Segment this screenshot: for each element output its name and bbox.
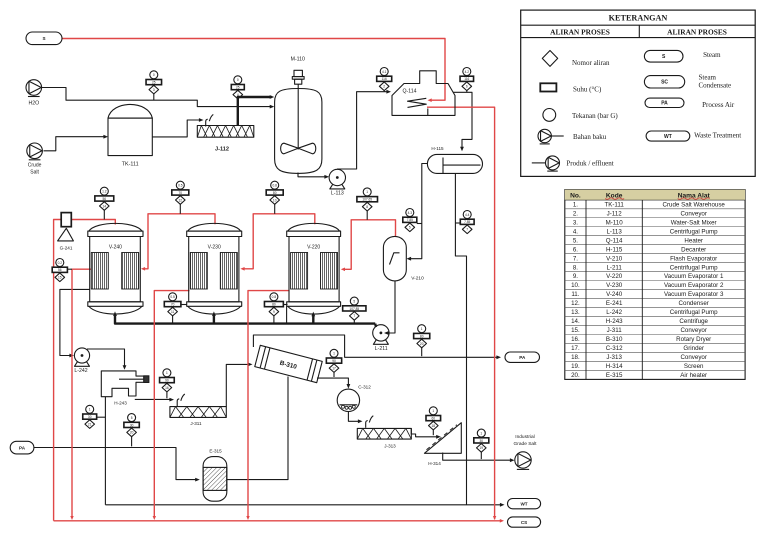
- svg-text:30: 30: [480, 439, 484, 443]
- svg-text:7.85: 7.85: [464, 220, 470, 224]
- svg-text:V-210: V-210: [606, 255, 623, 262]
- legend item produk effluent: [532, 156, 614, 171]
- instrument on PA line at L-211: [414, 325, 430, 357]
- svg-text:12.: 12.: [571, 300, 580, 307]
- svg-text:7.85: 7.85: [407, 218, 413, 222]
- CS header: [54, 516, 504, 523]
- centrifuge H-243: [101, 371, 149, 397]
- svg-text:9: 9: [273, 310, 275, 314]
- equipment table: [565, 190, 745, 380]
- instrument at Q-114 outlet: [460, 68, 474, 93]
- svg-text:KETERANGAN: KETERANGAN: [609, 13, 668, 22]
- wire TK-111 to J-112: [152, 118, 203, 137]
- wire B-310 to C-312: [317, 378, 350, 389]
- V-230 vapor to V-240: [141, 214, 215, 271]
- svg-text:5.: 5.: [573, 237, 578, 244]
- legend stadium WT: [646, 131, 741, 141]
- svg-text:116: 116: [464, 77, 469, 81]
- instrument above J-311: [160, 369, 175, 399]
- svg-text:Centrifugal Pump: Centrifugal Pump: [670, 309, 718, 316]
- label H-314: [428, 461, 441, 466]
- label Crude Salt: [28, 163, 42, 176]
- wire J-112 to M-110: [238, 95, 274, 125]
- svg-text:Screen: Screen: [684, 363, 704, 370]
- instrument on PA line left: [124, 414, 139, 447]
- svg-text:ALIRAN PROSES: ALIRAN PROSES: [550, 28, 610, 37]
- svg-text:B-310: B-310: [606, 336, 623, 343]
- svg-text:14: 14: [103, 204, 107, 208]
- svg-text:107.85: 107.85: [349, 307, 359, 311]
- svg-text:0: 0: [237, 78, 239, 82]
- svg-text:4.: 4.: [573, 228, 578, 235]
- legend box KETERANGAN: [521, 10, 756, 176]
- tank TK-111: [108, 104, 152, 155]
- instrument on bottoms header near V-230: [164, 293, 186, 323]
- instrument on H-243 bottoms: [83, 405, 106, 428]
- rotary dryer B-310: [255, 345, 322, 382]
- label L-211: [375, 346, 388, 352]
- svg-text:Conveyor: Conveyor: [680, 354, 706, 361]
- svg-text:0.5: 0.5: [170, 295, 175, 299]
- legend stadium S: [644, 50, 721, 62]
- wire L-242 to H-243: [87, 349, 126, 370]
- svg-text:Heater: Heater: [684, 237, 703, 244]
- wire B-310 exhaust to PA: [253, 335, 501, 359]
- svg-text:12: 12: [179, 198, 183, 202]
- svg-text:M-110: M-110: [291, 57, 305, 63]
- pump L-211: [373, 325, 389, 345]
- svg-text:18.: 18.: [571, 354, 580, 361]
- svg-text:Waste Treatment: Waste Treatment: [694, 132, 741, 140]
- instrument on H-115 bottoms: [455, 211, 474, 234]
- svg-text:M-110: M-110: [606, 219, 624, 226]
- label H-243: [114, 401, 127, 406]
- svg-text:7.: 7.: [573, 255, 578, 262]
- svg-text:L-211: L-211: [375, 346, 388, 352]
- svg-text:WT: WT: [520, 501, 527, 506]
- legend stadium SC: [644, 74, 731, 90]
- instrument at Q-114 inlet: [377, 68, 392, 92]
- svg-text:Salt: Salt: [30, 170, 39, 176]
- pump L-113: [329, 169, 345, 189]
- svg-text:30: 30: [88, 415, 92, 419]
- svg-text:H2O: H2O: [28, 101, 39, 107]
- svg-text:90: 90: [165, 379, 169, 383]
- svg-text:V-220: V-220: [307, 244, 320, 250]
- svg-text:80: 80: [273, 191, 277, 195]
- svg-text:21: 21: [88, 422, 92, 426]
- svg-text:80: 80: [420, 334, 424, 338]
- svg-text:C-312: C-312: [358, 385, 371, 390]
- svg-text:Process Air: Process Air: [702, 101, 735, 109]
- svg-text:9.: 9.: [573, 273, 578, 280]
- svg-text:S: S: [42, 36, 45, 41]
- svg-text:7: 7: [466, 228, 468, 232]
- label G-241: [60, 246, 73, 251]
- instrument at product line: [474, 429, 489, 459]
- instrument above V-220: [266, 181, 283, 214]
- svg-text:20: 20: [130, 431, 134, 435]
- instrument at V-240 condensate: [52, 259, 72, 282]
- svg-text:0.8: 0.8: [272, 295, 277, 299]
- svg-text:1: 1: [333, 352, 335, 356]
- svg-text:L-113: L-113: [606, 228, 622, 235]
- svg-text:1: 1: [421, 327, 423, 331]
- svg-text:E-315: E-315: [209, 448, 222, 453]
- feed pump crude salt: [27, 143, 43, 160]
- wire H-115 to V-210: [407, 164, 428, 261]
- label H2O: [28, 101, 39, 107]
- label J-313: [384, 444, 396, 449]
- label L-242: [74, 368, 87, 374]
- svg-text:3.: 3.: [573, 219, 578, 226]
- flash evaporator V-210: [383, 236, 406, 281]
- wire M-110 to L-113 pump: [298, 173, 329, 179]
- svg-text:Tekanan (bar G): Tekanan (bar G): [572, 112, 618, 120]
- svg-text:H-314: H-314: [606, 363, 623, 370]
- svg-text:Nomor aliran: Nomor aliran: [572, 59, 610, 67]
- svg-text:PA: PA: [19, 445, 26, 450]
- svg-text:11: 11: [171, 310, 175, 314]
- svg-text:20: 20: [420, 342, 424, 346]
- svg-text:1.2: 1.2: [102, 190, 107, 194]
- connector PA left: [10, 441, 34, 454]
- conveyor J-311: [170, 407, 226, 418]
- svg-text:PA: PA: [661, 101, 668, 107]
- svg-text:TK-111: TK-111: [604, 201, 624, 208]
- svg-text:107.65: 107.65: [362, 198, 372, 202]
- svg-text:19.: 19.: [571, 363, 580, 370]
- svg-text:H-243: H-243: [114, 401, 127, 406]
- svg-text:E-241: E-241: [606, 300, 623, 307]
- svg-text:30: 30: [130, 423, 134, 427]
- wire crude salt pump to TK-111: [44, 135, 109, 151]
- svg-text:3: 3: [153, 88, 155, 92]
- svg-text:Water-Salt Mixer: Water-Salt Mixer: [671, 219, 717, 226]
- wire C-312 to J-313: [348, 412, 373, 428]
- svg-text:Vacuum Evaporator 3: Vacuum Evaporator 3: [664, 291, 724, 298]
- svg-text:V-220: V-220: [606, 273, 623, 280]
- svg-text:Decanter: Decanter: [681, 246, 706, 253]
- svg-text:10: 10: [273, 198, 277, 202]
- legend item suhu: [540, 83, 602, 93]
- instrument at L-113 line: [357, 188, 378, 220]
- svg-text:11.: 11.: [571, 291, 579, 298]
- instrument at H-314 inlet: [426, 407, 441, 435]
- svg-text:5: 5: [131, 416, 133, 420]
- heater Q-114: [392, 71, 455, 116]
- svg-text:Industrial: Industrial: [515, 434, 534, 440]
- svg-text:L-211: L-211: [606, 264, 622, 271]
- svg-text:J-313: J-313: [384, 444, 396, 449]
- pump L-242: [74, 348, 89, 366]
- V-210 vapor to V-220: [341, 220, 396, 271]
- svg-text:4.3: 4.3: [408, 211, 413, 215]
- wire J-313 to H-314: [411, 428, 441, 438]
- svg-text:Condensate: Condensate: [699, 82, 732, 90]
- mixer M-110: [275, 70, 322, 173]
- svg-text:8: 8: [366, 205, 368, 209]
- wire H-243 bottoms down: [104, 397, 106, 505]
- svg-text:56: 56: [103, 197, 107, 201]
- svg-text:Grinder: Grinder: [683, 345, 704, 352]
- svg-text:16: 16: [165, 386, 169, 390]
- svg-text:16.: 16.: [571, 336, 580, 343]
- legend item tekanan: [543, 109, 619, 122]
- steam line S to Q-114: [62, 39, 445, 103]
- svg-text:18: 18: [432, 424, 436, 428]
- wire V-210 to L-211 pump: [384, 281, 395, 335]
- instrument on bottoms header near V-220: [264, 293, 287, 323]
- svg-text:Flash Evaporator: Flash Evaporator: [670, 255, 717, 262]
- svg-text:H-314: H-314: [428, 461, 441, 466]
- svg-text:Bahan baku: Bahan baku: [573, 133, 607, 141]
- conveyor J-313: [357, 428, 411, 439]
- svg-text:SC: SC: [661, 80, 668, 86]
- svg-text:H-243: H-243: [606, 318, 623, 325]
- connector PA right: [505, 352, 540, 362]
- svg-text:Grade Salt: Grade Salt: [514, 441, 538, 447]
- svg-text:J-112: J-112: [607, 210, 623, 217]
- svg-text:8.: 8.: [573, 264, 578, 271]
- svg-text:14.: 14.: [571, 318, 580, 325]
- svg-text:Vacuum Evaporator 2: Vacuum Evaporator 2: [664, 282, 724, 289]
- svg-text:C-312: C-312: [606, 345, 623, 352]
- wire H-314 to product pump: [443, 453, 515, 463]
- svg-text:L-242: L-242: [74, 368, 87, 374]
- svg-text:Vacuum Evaporator 1: Vacuum Evaporator 1: [664, 273, 724, 280]
- connector WT: [508, 499, 541, 509]
- legend stadium PA: [645, 98, 735, 109]
- svg-text:1: 1: [366, 190, 368, 194]
- svg-text:CS: CS: [521, 520, 527, 525]
- label M-110: [291, 57, 305, 63]
- svg-text:Crude: Crude: [28, 163, 42, 169]
- instrument on bottoms header at L-211: [343, 297, 366, 322]
- instrument at B-310 outlet: [326, 349, 341, 377]
- svg-text:V-210: V-210: [411, 276, 424, 282]
- svg-text:4.2: 4.2: [465, 70, 470, 74]
- svg-text:2.: 2.: [573, 210, 578, 217]
- label H-115: [431, 146, 444, 151]
- svg-text:10.: 10.: [571, 282, 580, 289]
- svg-text:V-230: V-230: [606, 282, 623, 289]
- svg-text:Condenser: Condenser: [679, 300, 709, 307]
- connector S steam: [26, 32, 62, 45]
- instrument above V-230: [172, 181, 189, 214]
- svg-text:H-115: H-115: [431, 146, 444, 151]
- label E-315: [209, 448, 222, 453]
- wire V-240 product to L-242: [60, 289, 90, 357]
- svg-text:0.2: 0.2: [58, 261, 63, 265]
- wire WT header: [105, 503, 504, 507]
- label Industrial Grade Salt: [514, 434, 538, 447]
- vacuum evaporator V-220: [287, 223, 341, 314]
- svg-text:H-115: H-115: [606, 246, 623, 253]
- screen H-314: [424, 423, 461, 454]
- svg-text:6.: 6.: [573, 246, 578, 253]
- svg-text:WT: WT: [664, 134, 672, 140]
- svg-text:5: 5: [409, 226, 411, 230]
- svg-text:1: 1: [166, 371, 168, 375]
- svg-text:56: 56: [58, 268, 62, 272]
- svg-text:15.: 15.: [571, 327, 580, 334]
- legend item nomor aliran: [542, 51, 610, 68]
- air heater E-315: [203, 457, 227, 502]
- wire H-243 to J-311: [135, 394, 185, 406]
- svg-text:0.8: 0.8: [272, 184, 277, 188]
- svg-text:Steam: Steam: [703, 51, 721, 59]
- svg-text:E-315: E-315: [606, 372, 623, 379]
- svg-text:19: 19: [480, 446, 484, 450]
- svg-text:No.: No.: [570, 192, 581, 199]
- wire L-211 to evaporator bottoms header: [374, 324, 377, 327]
- svg-text:Conveyor: Conveyor: [680, 210, 706, 217]
- wire H2O pump to M-110: [42, 88, 275, 109]
- feed pump H2O: [26, 80, 42, 97]
- V-240 vapor to condenser and CS: [54, 220, 116, 521]
- label TK-111: [122, 162, 139, 168]
- svg-text:Steam: Steam: [699, 74, 717, 82]
- svg-text:25: 25: [236, 86, 240, 90]
- svg-text:L-113: L-113: [331, 191, 344, 197]
- svg-text:70: 70: [179, 191, 183, 195]
- svg-text:Centrifugal Pump: Centrifugal Pump: [670, 264, 718, 271]
- label L-113: [331, 191, 344, 197]
- svg-text:25: 25: [152, 81, 156, 85]
- svg-text:13.: 13.: [571, 309, 580, 316]
- decanter H-115: [427, 154, 482, 173]
- svg-text:2: 2: [383, 85, 385, 89]
- label C-312: [358, 385, 371, 390]
- instrument on V-210 feed: [403, 209, 422, 232]
- svg-text:Centrifugal Pump: Centrifugal Pump: [670, 228, 718, 235]
- svg-text:Conveyor: Conveyor: [680, 327, 706, 334]
- V-220 condensate to CS: [246, 291, 289, 520]
- svg-text:J-112: J-112: [215, 147, 229, 153]
- svg-text:Q-114: Q-114: [606, 237, 623, 244]
- instrument above J-112: [231, 76, 244, 99]
- V-240 condensate to CS: [70, 269, 91, 520]
- svg-text:90: 90: [332, 359, 336, 363]
- wire Q-114 to H-115: [453, 92, 472, 151]
- connector CS: [508, 517, 541, 527]
- svg-text:5: 5: [353, 299, 355, 303]
- label V-210: [411, 276, 424, 282]
- svg-text:Crude Salt Warehouse: Crude Salt Warehouse: [663, 201, 726, 208]
- svg-text:0: 0: [153, 73, 155, 77]
- svg-text:Q-114: Q-114: [402, 88, 416, 94]
- svg-text:TK-111: TK-111: [122, 162, 139, 168]
- V-220 vapor to V-230: [240, 214, 314, 271]
- conveyor J-112: [197, 114, 254, 137]
- svg-text:15: 15: [58, 276, 62, 280]
- svg-text:L-242: L-242: [606, 309, 622, 316]
- svg-text:4.4: 4.4: [465, 213, 470, 217]
- svg-text:1: 1: [480, 431, 482, 435]
- svg-text:17: 17: [332, 366, 336, 370]
- label Q-114: [402, 88, 416, 94]
- svg-text:1: 1: [89, 408, 91, 412]
- wire L-113 to Q-114: [337, 90, 391, 169]
- label J-112: [215, 147, 229, 153]
- svg-text:J-311: J-311: [607, 327, 623, 334]
- vacuum evaporator V-230: [187, 223, 242, 314]
- svg-text:1: 1: [432, 409, 434, 413]
- svg-text:17.: 17.: [571, 345, 580, 352]
- condenser G-241: [58, 213, 74, 241]
- svg-text:6: 6: [466, 85, 468, 89]
- svg-text:V-240: V-240: [109, 244, 122, 250]
- svg-text:Centrifuge: Centrifuge: [679, 318, 708, 325]
- product pump industrial grade salt: [515, 452, 531, 470]
- svg-text:V-240: V-240: [606, 291, 623, 298]
- svg-text:116: 116: [382, 77, 387, 81]
- svg-text:Rotary Dryer: Rotary Dryer: [676, 336, 711, 343]
- svg-text:Produk / effluent: Produk / effluent: [566, 160, 613, 168]
- label J-311: [190, 421, 202, 426]
- svg-text:1.: 1.: [573, 201, 578, 208]
- svg-text:PA: PA: [519, 355, 526, 360]
- svg-text:20.: 20.: [571, 372, 580, 379]
- instrument above V-240: [95, 187, 114, 219]
- V-230 condensate to CS: [153, 291, 190, 520]
- svg-text:J-311: J-311: [190, 421, 202, 426]
- svg-text:7: 7: [353, 314, 355, 318]
- svg-text:J-313: J-313: [606, 354, 622, 361]
- svg-text:0.5: 0.5: [178, 184, 183, 188]
- steam condensate Q-114 to CS: [427, 107, 495, 519]
- wire J-311 to B-310: [226, 363, 252, 407]
- wire E-315 to B-310: [227, 377, 288, 480]
- grinder C-312: [337, 389, 359, 411]
- svg-text:4.1: 4.1: [382, 70, 387, 74]
- svg-text:G-241: G-241: [60, 246, 73, 251]
- svg-text:V-230: V-230: [208, 244, 221, 250]
- svg-text:Air heater: Air heater: [680, 372, 707, 379]
- legend item bahan baku: [538, 129, 607, 144]
- svg-text:ALIRAN PROSES: ALIRAN PROSES: [667, 28, 727, 37]
- wire H-115 bottoms to WT: [455, 173, 466, 504]
- wire PA to E-315: [34, 448, 200, 482]
- svg-text:60: 60: [432, 417, 436, 421]
- svg-text:80: 80: [272, 303, 276, 307]
- svg-text:70: 70: [171, 303, 175, 307]
- vacuum evaporator V-240: [88, 223, 143, 314]
- svg-text:4: 4: [237, 93, 239, 97]
- instrument on H2O line: [146, 71, 162, 100]
- svg-text:Suhu (°C): Suhu (°C): [573, 86, 602, 94]
- evaporator bottoms header: [113, 306, 375, 323]
